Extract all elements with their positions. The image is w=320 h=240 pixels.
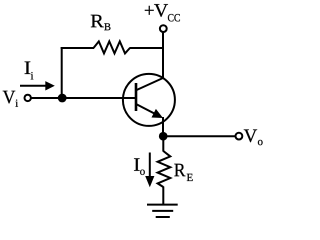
terminal: Vo output open circle	[236, 133, 243, 140]
wire: output horizontal	[163, 135, 236, 137]
net label +VCC	[145, 4, 180, 21]
transistor body circle	[123, 74, 175, 126]
wire: RE bottom lead to ground	[162, 187, 164, 205]
label Vi	[3, 91, 18, 107]
resistor RB (zigzag body)	[94, 41, 130, 53]
wire: emitter down to output node	[162, 117, 164, 137]
transistor Q1 (NPN)	[123, 74, 175, 126]
collector lead	[136, 78, 164, 91]
wire: RB right lead to VCC stem	[130, 47, 165, 49]
wire: top horizontal, node riser to RB left lead	[61, 47, 94, 49]
current arrow Ii	[20, 81, 55, 90]
terminal: +VCC open circle	[160, 25, 167, 32]
ground symbol	[147, 205, 178, 217]
current arrow Io	[145, 153, 154, 188]
value label RB	[91, 15, 111, 30]
wire: VCC stem down to transistor collector	[162, 33, 164, 79]
label Io	[134, 158, 145, 175]
emitter lead	[136, 104, 158, 115]
wire: node down to RE top lead	[162, 136, 164, 152]
wire: left vertical riser from input node up to RB row	[61, 47, 63, 98]
terminal: Vi input open circle	[25, 95, 31, 101]
label Ii	[25, 62, 34, 80]
junction node: emitter / output / RE	[159, 132, 168, 141]
label Vo	[244, 129, 263, 145]
base bar	[135, 83, 138, 111]
emitter arrowhead	[152, 109, 164, 118]
wire: input horizontal to transistor base	[31, 97, 136, 99]
junction node: input / RB riser	[58, 94, 67, 103]
value label RE	[174, 164, 192, 181]
resistor RE (zigzag body)	[158, 151, 171, 187]
